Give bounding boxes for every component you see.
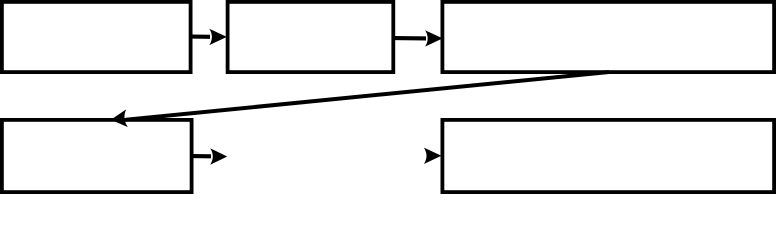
arrowhead D (points left at box 4 top edge) — [110, 109, 128, 128]
box 3 (top-right process box) — [442, 2, 774, 72]
box 4 (bottom-left process box) — [2, 120, 192, 192]
arrowhead B (points right at box 3) — [425, 30, 443, 46]
wire: arrow A stem (box 1 to box 2) — [192, 35, 210, 39]
wire: arrow D diagonal stem (box 3 bottom to box 4 top) — [126, 72, 609, 120]
box 2 (top-middle process box) — [228, 2, 394, 72]
box 1 (top-left process box) — [2, 2, 191, 72]
box 5 (bottom-right process box) — [442, 120, 774, 192]
wire: arrow C stem (from box 4 right edge) — [193, 154, 211, 158]
arrowhead C (points right, free end) — [210, 148, 227, 164]
arrowhead E (points right into box 5 left edge, no stem) — [424, 148, 442, 164]
wire: arrow B stem (box 2 to box 3) — [395, 36, 427, 40]
arrowhead A (points right at box 2) — [209, 29, 227, 45]
